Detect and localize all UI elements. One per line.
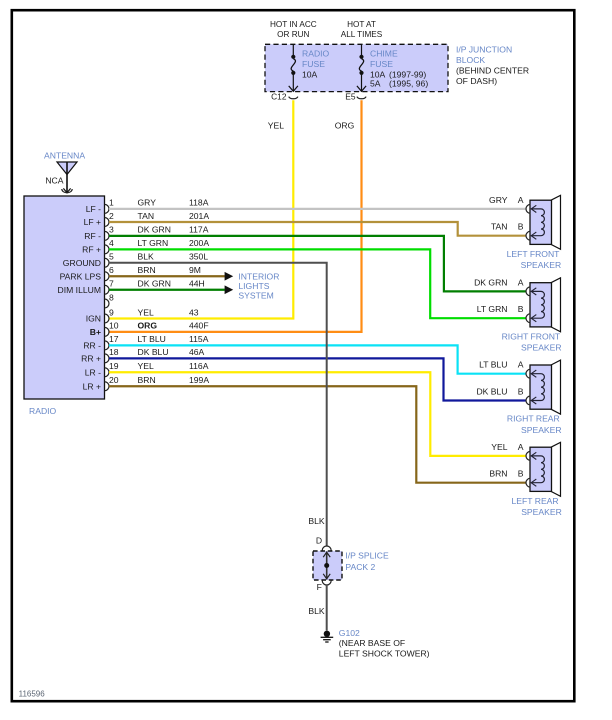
svg-text:BLK: BLK <box>138 252 155 262</box>
svg-text:YEL: YEL <box>491 442 507 452</box>
svg-text:B: B <box>518 387 524 397</box>
svg-text:TAN: TAN <box>491 222 508 232</box>
svg-text:SYSTEM: SYSTEM <box>238 290 273 300</box>
svg-text:A: A <box>518 277 524 287</box>
svg-text:116596: 116596 <box>19 690 46 699</box>
svg-text:RADIO: RADIO <box>29 406 57 416</box>
svg-text:INTERIOR: INTERIOR <box>238 271 279 281</box>
svg-text:DK GRN: DK GRN <box>138 225 171 235</box>
svg-text:440F: 440F <box>189 321 209 331</box>
svg-text:PACK 2: PACK 2 <box>345 562 375 572</box>
svg-text:(NEAR BASE OF: (NEAR BASE OF <box>339 638 405 648</box>
svg-text:9: 9 <box>109 307 114 317</box>
svg-text:RF -: RF - <box>84 231 101 241</box>
svg-text:5A: 5A <box>370 79 381 89</box>
svg-text:46A: 46A <box>189 347 205 357</box>
svg-text:LT BLU: LT BLU <box>138 334 166 344</box>
svg-text:44H: 44H <box>189 279 205 289</box>
svg-text:B: B <box>518 222 524 232</box>
svg-text:D: D <box>316 536 322 546</box>
svg-text:E5: E5 <box>345 92 356 102</box>
svg-text:201A: 201A <box>189 211 209 221</box>
svg-text:SPEAKER: SPEAKER <box>521 425 562 435</box>
svg-text:RIGHT REAR: RIGHT REAR <box>507 414 560 424</box>
svg-text:NCA: NCA <box>45 176 63 186</box>
svg-text:200A: 200A <box>189 238 209 248</box>
svg-text:ORG: ORG <box>335 120 355 130</box>
svg-text:RIGHT FRONT: RIGHT FRONT <box>502 331 561 341</box>
svg-text:LEFT FRONT: LEFT FRONT <box>507 249 561 259</box>
svg-text:18: 18 <box>109 347 119 357</box>
svg-text:LEFT SHOCK TOWER): LEFT SHOCK TOWER) <box>339 648 430 658</box>
svg-text:PARK LPS: PARK LPS <box>60 271 102 281</box>
svg-text:RR +: RR + <box>81 354 101 364</box>
svg-text:FUSE: FUSE <box>302 59 325 69</box>
svg-text:117A: 117A <box>189 225 209 235</box>
svg-text:7: 7 <box>109 279 114 289</box>
svg-text:I/P JUNCTION: I/P JUNCTION <box>456 45 512 55</box>
svg-text:LT GRN: LT GRN <box>138 238 169 248</box>
svg-text:HOT IN ACC: HOT IN ACC <box>270 20 317 29</box>
svg-text:LF +: LF + <box>84 217 101 227</box>
svg-text:B: B <box>518 469 524 479</box>
svg-text:BRN: BRN <box>489 469 507 479</box>
svg-text:4: 4 <box>109 238 114 248</box>
svg-text:LR -: LR - <box>85 367 101 377</box>
svg-text:G102: G102 <box>339 628 360 638</box>
svg-text:TAN: TAN <box>138 211 155 221</box>
svg-text:C12: C12 <box>271 92 287 102</box>
svg-text:LF -: LF - <box>86 204 101 214</box>
svg-text:DIM ILLUM: DIM ILLUM <box>58 285 101 295</box>
svg-text:SPEAKER: SPEAKER <box>521 507 562 517</box>
svg-text:SPEAKER: SPEAKER <box>521 343 562 353</box>
svg-text:IGN: IGN <box>86 314 101 324</box>
svg-text:19: 19 <box>109 361 119 371</box>
svg-text:2: 2 <box>109 211 114 221</box>
svg-text:ANTENNA: ANTENNA <box>44 151 85 161</box>
svg-text:6: 6 <box>109 265 114 275</box>
svg-text:1: 1 <box>109 198 114 208</box>
svg-text:DK BLU: DK BLU <box>476 387 507 397</box>
svg-text:116A: 116A <box>189 361 209 371</box>
svg-text:OR RUN: OR RUN <box>277 30 309 39</box>
svg-text:RADIO: RADIO <box>302 49 330 59</box>
svg-text:YEL: YEL <box>138 361 154 371</box>
svg-text:RR -: RR - <box>83 341 101 351</box>
svg-text:ORG: ORG <box>138 321 158 331</box>
svg-text:8: 8 <box>109 292 114 302</box>
svg-text:LT BLU: LT BLU <box>479 360 507 370</box>
svg-text:(BEHIND CENTER: (BEHIND CENTER <box>456 66 529 76</box>
svg-text:OF DASH): OF DASH) <box>456 76 497 86</box>
svg-text:B+: B+ <box>90 327 101 337</box>
svg-text:FUSE: FUSE <box>370 59 393 69</box>
svg-text:HOT AT: HOT AT <box>347 20 376 29</box>
svg-text:10: 10 <box>109 321 119 331</box>
svg-text:118A: 118A <box>189 198 209 208</box>
svg-text:17: 17 <box>109 334 119 344</box>
svg-text:20: 20 <box>109 375 119 385</box>
svg-text:B: B <box>518 304 524 314</box>
svg-text:LEFT REAR: LEFT REAR <box>512 496 559 506</box>
svg-text:(1995, 96): (1995, 96) <box>389 79 428 89</box>
svg-text:RF +: RF + <box>82 245 101 255</box>
svg-text:BLOCK: BLOCK <box>456 55 485 65</box>
svg-text:199A: 199A <box>189 375 209 385</box>
svg-text:LIGHTS: LIGHTS <box>238 281 269 291</box>
svg-text:43: 43 <box>189 307 199 317</box>
svg-text:LR +: LR + <box>83 381 101 391</box>
svg-text:A: A <box>518 442 524 452</box>
svg-text:9M: 9M <box>189 265 201 275</box>
svg-text:BLK: BLK <box>308 606 325 616</box>
svg-text:GRY: GRY <box>138 198 157 208</box>
svg-text:YEL: YEL <box>268 120 284 130</box>
svg-text:DK GRN: DK GRN <box>138 279 171 289</box>
svg-text:YEL: YEL <box>138 307 154 317</box>
svg-text:GROUND: GROUND <box>63 258 101 268</box>
svg-text:CHIME: CHIME <box>370 49 398 59</box>
svg-text:3: 3 <box>109 225 114 235</box>
svg-text:DK BLU: DK BLU <box>138 347 169 357</box>
svg-text:SPEAKER: SPEAKER <box>521 260 562 270</box>
svg-text:I/P SPLICE: I/P SPLICE <box>345 551 389 561</box>
svg-text:5: 5 <box>109 252 114 262</box>
svg-text:350L: 350L <box>189 252 208 262</box>
svg-text:LT GRN: LT GRN <box>477 304 508 314</box>
svg-text:GRY: GRY <box>489 195 508 205</box>
svg-text:BRN: BRN <box>138 375 156 385</box>
svg-text:F: F <box>317 582 322 592</box>
svg-text:DK GRN: DK GRN <box>474 277 507 287</box>
svg-text:ALL TIMES: ALL TIMES <box>341 30 383 39</box>
svg-text:A: A <box>518 360 524 370</box>
svg-text:115A: 115A <box>189 334 209 344</box>
svg-text:BRN: BRN <box>138 265 156 275</box>
svg-text:A: A <box>518 195 524 205</box>
svg-text:BLK: BLK <box>308 516 325 526</box>
svg-text:10A: 10A <box>302 69 318 79</box>
